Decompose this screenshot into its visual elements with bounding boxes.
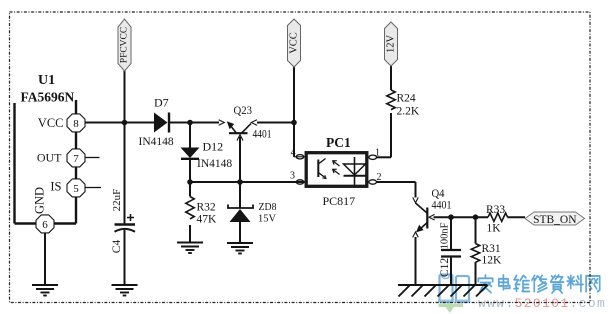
wire VCC trunk down to PC1 pin4 [293, 67, 295, 157]
svg-text:R32: R32 [197, 202, 216, 214]
svg-text:GND: GND [33, 187, 47, 214]
node junction PFCVCC/C4 on VCC rail [122, 120, 128, 126]
node junction VCC trunk / PC1 pin4 [291, 120, 297, 126]
svg-text:U1: U1 [38, 73, 55, 88]
wire PFCVCC trunk [124, 70, 126, 123]
resistor R31 [471, 243, 502, 267]
svg-text:VCC: VCC [38, 116, 64, 130]
svg-text:D12: D12 [203, 140, 224, 154]
wire Q23 base [239, 137, 241, 183]
node junction R31 on Q4 base rail [473, 214, 479, 220]
resistor R24 [387, 90, 420, 118]
U1 pin 8 pad [67, 114, 85, 132]
node junction D12 on VCC rail [187, 120, 193, 126]
wire R32 branch [189, 182, 191, 197]
U1 pin stubs [85, 158, 101, 188]
transistor Q4 [413, 186, 452, 237]
wire R31 branch [475, 217, 477, 243]
svg-text:4401: 4401 [253, 127, 272, 141]
svg-text:D7: D7 [154, 96, 169, 110]
svg-text:C12: C12 [439, 258, 451, 277]
svg-text:R33: R33 [486, 204, 505, 216]
net tag PFCVCC [118, 19, 131, 71]
ground R32 [177, 243, 203, 254]
svg-text:4401: 4401 [432, 198, 452, 212]
U1 pin 6 pad [36, 215, 54, 233]
IC U1 outline [15, 100, 77, 224]
svg-text:7: 7 [73, 153, 79, 165]
wire C4 branch [124, 123, 126, 224]
optocoupler PC1 box [306, 135, 367, 208]
svg-text:6: 6 [42, 219, 48, 231]
svg-text:ZD8: ZD8 [259, 201, 277, 213]
resistor R32 [186, 197, 217, 226]
svg-text:2.2K: 2.2K [397, 106, 420, 118]
U1 pin 5 pad [67, 179, 85, 197]
svg-text:12V: 12V [386, 35, 397, 54]
wire D12 branch [189, 123, 191, 149]
zener ZD8 [228, 201, 277, 225]
ground U1 pin6 [32, 285, 58, 296]
net tag 12V [385, 22, 398, 66]
svg-text:STB_ON: STB_ON [533, 214, 577, 226]
svg-text:2: 2 [377, 172, 382, 183]
wire ZD8 branch [239, 182, 241, 208]
diode D12 [181, 140, 233, 171]
ground ZD8 [227, 243, 253, 254]
svg-text:8: 8 [73, 118, 79, 130]
watermark logo book icon [438, 275, 471, 314]
wire Q4 emitter to ground [415, 237, 417, 285]
wire C12 branch [450, 217, 452, 249]
node junction C12 on Q4 base rail [448, 214, 454, 220]
PC1 LED [344, 157, 366, 185]
svg-text:IN4148: IN4148 [139, 136, 174, 148]
ground C4 [112, 285, 138, 296]
svg-text:IS: IS [50, 179, 61, 193]
svg-text:OUT: OUT [37, 150, 62, 164]
svg-text:R24: R24 [397, 93, 416, 105]
svg-text:12K: 12K [482, 255, 503, 267]
wire rail to PC1 pin3 [190, 181, 305, 183]
wire PC1 pin2 to Q4 collector [376, 181, 416, 183]
wire U1 pin6 to ground [44, 233, 46, 286]
svg-text:PC1: PC1 [326, 135, 351, 150]
U1 pin 7 pad [67, 149, 85, 167]
node junction D12/R32 [187, 179, 193, 185]
svg-text:R31: R31 [482, 243, 501, 255]
diode D7 [139, 96, 174, 149]
capacitor C12 [439, 222, 461, 277]
net tag VCC [288, 19, 301, 67]
svg-text:PFCVCC: PFCVCC [120, 27, 130, 63]
chassis ground bar [398, 285, 488, 297]
wire Q4 base rail [434, 216, 489, 218]
svg-text:C4: C4 [111, 240, 123, 254]
svg-text:PC817: PC817 [323, 194, 356, 208]
PC1 light arrows [333, 161, 340, 175]
svg-text:IN4148: IN4148 [197, 158, 232, 170]
PC1 phototransistor [318, 159, 326, 179]
capacitor C4 [111, 189, 135, 254]
svg-text:100nF: 100nF [439, 222, 450, 249]
svg-text:5: 5 [73, 183, 79, 195]
svg-text:1K: 1K [487, 223, 502, 235]
svg-text:Q23: Q23 [234, 103, 253, 117]
net tag STB_ON [525, 212, 585, 226]
transistor Q23 [219, 103, 272, 141]
svg-text:22uF: 22uF [111, 189, 123, 212]
PC1 pin pads [296, 155, 376, 185]
svg-text:FA5696N: FA5696N [21, 90, 75, 105]
node junction Q23 base / ZD8 [237, 179, 243, 185]
svg-text:3: 3 [290, 170, 295, 181]
resistor R33 [486, 204, 508, 235]
svg-text:47K: 47K [197, 214, 218, 226]
wire main VCC rail [85, 122, 155, 124]
svg-text:15V: 15V [258, 213, 276, 225]
svg-text:VCC: VCC [289, 32, 300, 54]
svg-text:www.520101.com: www.520101.com [478, 296, 606, 311]
watermark chinese text 家电维修资料网 (drawn strokes) [478, 275, 599, 293]
svg-text:1: 1 [375, 147, 380, 158]
wire 12V trunk [390, 66, 392, 90]
svg-text:4: 4 [291, 148, 296, 159]
